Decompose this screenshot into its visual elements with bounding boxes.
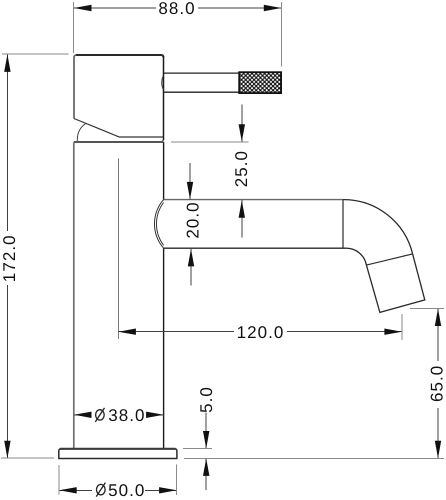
svg-text:20.0: 20.0 bbox=[184, 201, 203, 238]
svg-text:5.0: 5.0 bbox=[197, 386, 216, 413]
svg-text:172.0: 172.0 bbox=[0, 234, 19, 282]
svg-text:120.0: 120.0 bbox=[237, 323, 285, 342]
svg-text:25.0: 25.0 bbox=[232, 150, 251, 187]
svg-text:50.0: 50.0 bbox=[108, 481, 145, 500]
svg-text:65.0: 65.0 bbox=[428, 365, 446, 402]
svg-text:38.0: 38.0 bbox=[108, 406, 145, 425]
svg-text:88.0: 88.0 bbox=[158, 0, 195, 18]
